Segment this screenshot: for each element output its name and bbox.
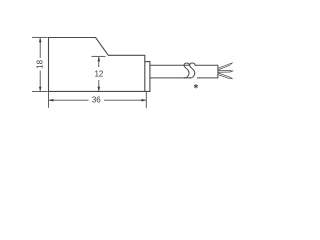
dim 12: dimension line (98, 57, 100, 67)
dim 18: arrow down (39, 87, 42, 92)
lead wire top (218, 64, 230, 70)
dim 36: arrow right (142, 99, 147, 102)
dim 12: arrow down (98, 87, 101, 92)
svg-text:18: 18 (35, 59, 44, 68)
dim 36: left extension line (48, 92, 50, 108)
cable gland block (145, 62, 150, 92)
lead wire bottom (218, 73, 230, 79)
asterisk footnote mark (194, 84, 198, 88)
cable break S-curve 2 (190, 63, 195, 78)
dim 36: right extension line (145, 92, 147, 108)
dim 18: arrow up (39, 38, 42, 43)
cable break S-curve 1 (184, 63, 189, 78)
dim 18: bottom extension line (32, 91, 48, 93)
dim 36: arrow left (49, 99, 54, 102)
dim 12: top extension line (92, 55, 106, 57)
wire: cable left segment bottom (150, 77, 191, 79)
cable end cap (217, 65, 219, 78)
dim 36: dimension line (49, 99, 89, 101)
svg-text:36: 36 (92, 96, 101, 105)
dim 12: arrow up (98, 57, 101, 62)
dim 18: dimension line (39, 38, 41, 58)
dim 18: top extension line (32, 36, 48, 38)
sensor body outline (49, 38, 145, 92)
svg-text:12: 12 (94, 69, 103, 78)
wire: cable left segment top (150, 64, 189, 66)
lead wire middle (218, 70, 230, 72)
wire: cable right segment top (195, 64, 218, 66)
wire: cable right segment bottom (197, 77, 218, 79)
